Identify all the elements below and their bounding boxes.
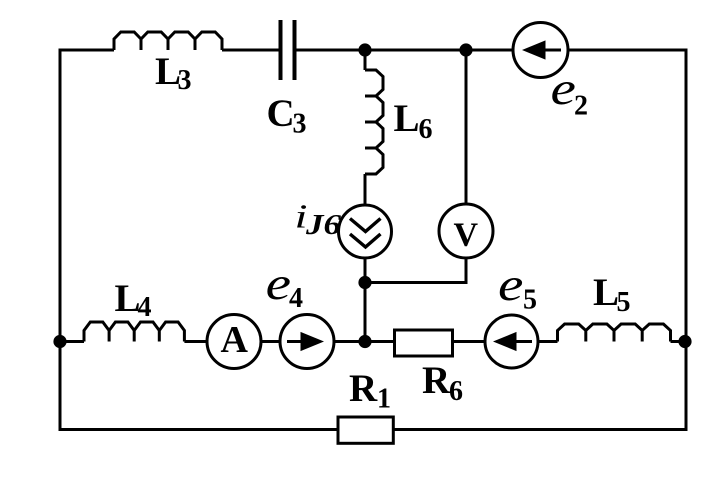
wire A to e4 bbox=[261, 340, 280, 343]
inductor L5 bbox=[558, 324, 671, 342]
node middle-center bbox=[358, 335, 371, 348]
wire left vertical + top-left and bottom-left corners bbox=[60, 50, 337, 430]
svg-text:R: R bbox=[422, 359, 451, 402]
inductor L4 bbox=[84, 322, 184, 342]
wire e5 to L5 bbox=[538, 340, 558, 343]
wire iJ6 to middle node bbox=[364, 258, 367, 342]
svg-text:6: 6 bbox=[449, 376, 463, 407]
wire L4 to A bbox=[184, 340, 207, 343]
node middle-left bbox=[53, 335, 66, 348]
node below iJ6 bbox=[358, 276, 371, 289]
svg-text:5: 5 bbox=[523, 285, 537, 316]
inductor L6 bbox=[365, 70, 383, 174]
voltmeter V bbox=[439, 204, 493, 258]
resistor R6 bbox=[395, 330, 453, 356]
svg-text:4: 4 bbox=[138, 292, 152, 323]
wire L6 to iJ6 bbox=[364, 174, 367, 205]
svg-text:J6: J6 bbox=[305, 210, 341, 241]
inductor L3 bbox=[114, 32, 222, 50]
ammeter A bbox=[207, 315, 261, 369]
node at top of L6 branch bbox=[358, 43, 371, 56]
svg-text:R: R bbox=[349, 367, 378, 410]
wire connector node to V branch with corner bbox=[365, 258, 466, 283]
wire C3 to e2 bbox=[296, 49, 513, 52]
source e5 bbox=[485, 315, 538, 368]
capacitor C3 bbox=[281, 20, 295, 80]
node middle-right bbox=[678, 335, 691, 348]
svg-text:C: C bbox=[267, 92, 295, 135]
svg-text:V: V bbox=[454, 217, 479, 254]
svg-text:5: 5 bbox=[617, 287, 631, 318]
wire node to L6 bbox=[364, 50, 367, 70]
svg-text:3: 3 bbox=[178, 65, 192, 96]
wire V branch vertical bbox=[465, 50, 468, 204]
source e2 bbox=[513, 23, 568, 78]
wire R6 to e5 bbox=[454, 340, 485, 343]
svg-text:L: L bbox=[394, 97, 420, 140]
svg-text:4: 4 bbox=[289, 283, 303, 314]
wire e4 to R6 bbox=[334, 340, 393, 343]
svg-text:2: 2 bbox=[574, 91, 588, 122]
wire L3 to C3 bbox=[222, 49, 279, 52]
source e4 bbox=[280, 315, 334, 369]
svg-text:e: e bbox=[551, 63, 576, 115]
svg-text:3: 3 bbox=[293, 109, 307, 140]
svg-text:A: A bbox=[221, 319, 249, 361]
wire left node to L4 bbox=[60, 340, 84, 343]
wire L5 to right node bbox=[671, 340, 687, 343]
current source iJ6 bbox=[339, 205, 392, 258]
svg-text:1: 1 bbox=[377, 384, 391, 415]
svg-text:L: L bbox=[593, 271, 619, 314]
svg-text:6: 6 bbox=[419, 114, 433, 145]
wire right vertical + top-right and bottom-right corners bbox=[394, 50, 686, 430]
resistor R1 bbox=[338, 417, 393, 443]
svg-text:e: e bbox=[266, 258, 291, 310]
node at top of V branch bbox=[459, 43, 472, 56]
svg-text:e: e bbox=[498, 259, 523, 311]
